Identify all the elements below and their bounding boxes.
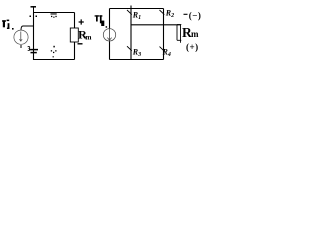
label minus (-): [184, 13, 188, 15]
label i_s: [2, 20, 14, 30]
wire: right branch upper (to R_m box): [74, 13, 76, 29]
svg-text:R1: R1: [132, 11, 141, 22]
resistor R2 tick: [160, 10, 165, 15]
wire: left edge lower (from source): [109, 42, 111, 60]
R_m meter box: [70, 28, 78, 42]
resistor R4 tick: [160, 47, 165, 52]
svg-text:m: m: [85, 33, 92, 42]
svg-text:(+): (+): [186, 42, 199, 52]
label U_f: [95, 15, 108, 27]
arrow marker at top-left corner: [31, 6, 37, 12]
wire: middle arm of bridge: [130, 9, 132, 60]
wire: bottom wire of bridge: [110, 59, 164, 61]
wire: bottom lead of current source: [20, 45, 22, 48]
wire: right edge of bridge: [163, 9, 165, 60]
meter R_m box (right): [177, 25, 181, 43]
wire: top wire of bridge: [110, 8, 164, 10]
resistor R1 tick: [127, 10, 132, 15]
wire: bridge output to meter: [131, 24, 181, 26]
minus label at meter bottom: [78, 43, 83, 45]
svg-text:R3: R3: [132, 47, 141, 58]
capacitor on left edge: [29, 50, 38, 53]
wire: top wire of left loop: [34, 12, 75, 14]
svg-text:R2: R2: [165, 8, 174, 18]
plus label at meter top: [79, 19, 84, 24]
node tick above bridge top wire: [130, 6, 132, 9]
wire: stub from left edge to current source: [21, 26, 34, 30]
wire: right branch lower (from R_m box): [74, 42, 76, 60]
capacitor small curl label: [28, 46, 30, 50]
wire: bottom wire of left loop: [34, 59, 75, 61]
svg-text:m: m: [191, 29, 199, 39]
svg-text:(−): (−): [189, 11, 202, 21]
label marks above bottom wire: [51, 46, 57, 58]
wire: left edge of left loop: [33, 13, 35, 61]
svg-text:R4: R4: [162, 48, 171, 59]
arrow inside source: [109, 29, 111, 42]
current source i_s circle: [14, 30, 28, 44]
resistor R3 tick: [127, 46, 132, 51]
source U_f circle: [103, 29, 115, 41]
label marks under top wire (v): [51, 13, 57, 17]
wire: left edge upper (to source): [109, 9, 111, 29]
arrow inside current source: [20, 32, 22, 42]
